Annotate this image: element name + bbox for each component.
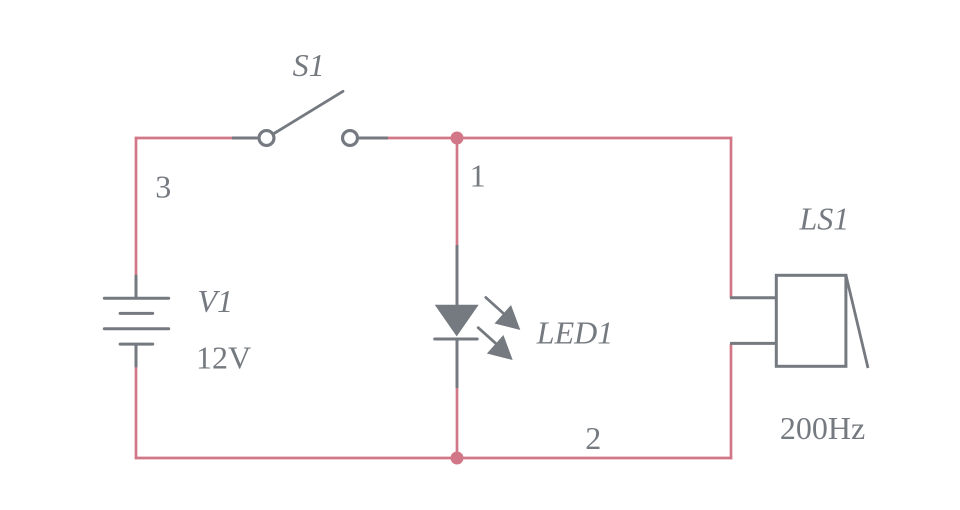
svg-text:3: 3 [155,169,171,205]
wire: left vertical upper (node 3) [135,137,138,276]
speaker body rectangle [776,275,846,366]
wire: middle vertical lower (from LED cathode) [456,388,459,458]
battery top lead [135,276,138,298]
wire: bottom horizontal (node 2) [135,457,732,460]
svg-text:12V: 12V [196,339,251,375]
switch left terminal circle [259,131,274,146]
LED cathode bar [435,338,478,341]
battery plate long 1 [104,297,168,300]
switch left lead [232,137,258,140]
battery plate long 2 [104,327,168,330]
speaker upper lead [730,296,776,299]
wire: right vertical upper [730,137,733,298]
LED anode lead [456,245,459,306]
junction dot at node 1 [451,132,464,145]
svg-text:S1: S1 [293,47,325,83]
battery plate short 2 [120,343,153,346]
battery plate short 1 [120,312,153,315]
battery bottom lead [135,344,138,366]
wire: left vertical lower [135,366,138,459]
loudspeaker LS1 [730,275,868,368]
svg-text:LS1: LS1 [799,200,850,236]
switch S1 [232,91,388,145]
switch lever [274,91,343,133]
svg-text:LED1: LED1 [536,315,613,351]
wire: top-left horizontal to switch [135,137,232,140]
svg-text:V1: V1 [198,283,234,319]
wire: right vertical lower [730,344,733,459]
LED light arrow lower [478,328,513,360]
LED light arrow upper [486,298,521,331]
switch right lead [359,137,388,140]
junction dot at node 2 [451,452,464,465]
svg-text:2: 2 [585,420,601,456]
svg-text:1: 1 [470,157,486,193]
speaker lower lead [730,342,776,345]
switch right terminal circle [343,131,358,146]
LED cathode lead [456,339,459,388]
svg-text:200Hz: 200Hz [780,410,865,446]
LED triangle [435,305,479,337]
battery V1 [104,276,168,366]
speaker cone diagonal [846,275,868,368]
LED LED1 [435,245,521,388]
wire: middle vertical upper (to LED anode) [456,138,459,245]
wire: top horizontal from switch to node 1 and right corner [387,137,732,140]
